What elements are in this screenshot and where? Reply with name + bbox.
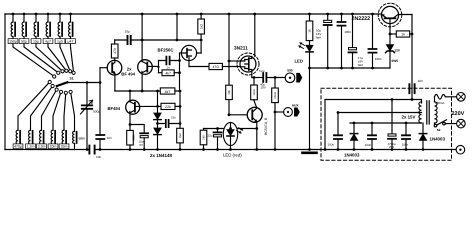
resistor R12 1k LED feed (309, 14, 311, 21)
wire drain to rail (254, 14, 256, 56)
capacitor C10 100n (341, 14, 343, 21)
svg-text:500: 500 (287, 68, 293, 72)
diode D1 1N4148 (157, 91, 159, 113)
capacitor C11 47u 16V tant (352, 14, 354, 48)
svg-text:1.2m: 1.2m (27, 145, 35, 149)
inductor L6 value μ47 (70, 14, 72, 22)
svg-text:10k: 10k (227, 90, 231, 95)
svg-text:100n: 100n (344, 30, 351, 34)
wire L9 to S1 contact (42, 90, 57, 131)
wire gate node vertical (179, 53, 181, 91)
svg-text:2k2: 2k2 (178, 133, 182, 138)
resistor R7 2k2 (177, 128, 184, 143)
svg-text:LED (red): LED (red) (223, 153, 242, 158)
wire collector rail down (411, 15, 413, 100)
wire L11 to S1 contact (64, 93, 66, 130)
jack J2 AUX (275, 111, 284, 113)
svg-text:100k: 100k (131, 134, 135, 141)
resistor R6 22k (161, 103, 175, 109)
resistor R13 1k (390, 33, 396, 35)
capacitor C18 1n gate coupling (158, 61, 160, 73)
svg-text:1k5: 1k5 (202, 135, 206, 140)
svg-text:150μ: 150μ (9, 40, 17, 44)
resistor R3 47ohm source follower (189, 66, 209, 68)
svg-text:3.3m: 3.3m (38, 145, 46, 149)
resistor R2 1k2 (198, 19, 205, 34)
svg-text:15μ: 15μ (33, 40, 39, 44)
variable capacitor C1 500p tuning (86, 83, 88, 150)
capacitor C14 100n (337, 113, 339, 135)
mains terminal X2 (457, 119, 466, 128)
wire L6 to S1 contact (71, 37, 74, 73)
inductor L8 value 1.2m (30, 148, 32, 150)
svg-text:1k2: 1k2 (199, 24, 203, 29)
svg-text:68m: 68m (79, 137, 86, 141)
svg-text:4k7: 4k7 (165, 71, 171, 75)
diode D2 1N4148 (157, 120, 159, 128)
diode D7 1N4003 (422, 123, 424, 134)
svg-text:3N211: 3N211 (234, 46, 248, 52)
wire to psu (325, 100, 422, 104)
capacitor C4 10u feedback (115, 39, 201, 41)
wire source down (251, 72, 253, 78)
wire secondary bottom (350, 122, 422, 124)
capacitor C5 10u 5V (130, 125, 144, 133)
svg-text:100mA: 100mA (435, 101, 445, 105)
svg-text:BF494: BF494 (108, 106, 121, 111)
wire bottom ground rail (5, 149, 456, 151)
capacitor C13 10n line isolation (409, 84, 414, 93)
wire L3 to S1 contact (36, 37, 63, 72)
capacitor C6 22n (158, 123, 181, 125)
svg-text:470μ: 470μ (14, 145, 22, 149)
svg-text:2x 1N4148: 2x 1N4148 (150, 153, 173, 158)
wire top supply rail (5, 13, 412, 16)
transistor T3 BF494 current source (126, 100, 140, 114)
resistor R9 10k (228, 14, 230, 85)
capacitor C9 10u 16V tant (327, 14, 329, 20)
svg-text:2x 15V: 2x 15V (402, 115, 416, 120)
wire L1 to S1 contact (13, 37, 54, 77)
resistor R5 4k7 (160, 88, 175, 94)
wire L5 to S1 contact (60, 37, 70, 72)
svg-text:4k7: 4k7 (165, 90, 171, 94)
svg-text:4μ7: 4μ7 (45, 40, 51, 44)
wire S1 wiper node down to C3 (99, 68, 101, 134)
svg-text:1μ5: 1μ5 (57, 40, 63, 44)
capacitor C12 100n (372, 14, 374, 48)
JFET U1 BF256C (181, 45, 196, 60)
resistor R11 560 (274, 78, 276, 89)
svg-text:10V: 10V (261, 86, 266, 90)
earth terminal X3 (456, 145, 465, 154)
svg-text:1n: 1n (166, 65, 170, 69)
svg-text:220V: 220V (452, 111, 465, 117)
capacitor C15 100n (371, 123, 373, 134)
wire rail drop x177 (176, 14, 178, 40)
wire source node y77.5 (252, 77, 262, 79)
resistor R10 1k5 (203, 129, 205, 131)
svg-text:1N4003: 1N4003 (344, 153, 360, 158)
switch S2 (434, 123, 436, 124)
transistor T1 BF494 (107, 60, 122, 75)
svg-text:100n: 100n (402, 143, 409, 147)
wire L8 to S1 contact (31, 86, 53, 130)
svg-text:10n: 10n (107, 136, 112, 140)
jack J1 phones 500 (285, 73, 295, 83)
coil value tags bottom bank (13, 144, 23, 149)
junction dots (12, 13, 15, 16)
wire zero volt line y68 (310, 67, 391, 69)
capacitor C2 10n series in ground rail (89, 146, 94, 154)
svg-text:1k: 1k (401, 33, 405, 37)
svg-text:5V: 5V (140, 143, 144, 147)
svg-text:Tant: Tant (357, 63, 363, 67)
wire L10 to S1 contact (53, 92, 61, 130)
inductor L5 value 1μ5 (59, 14, 61, 22)
svg-text:Tant: Tant (315, 36, 321, 40)
resistor R1 470 (111, 44, 118, 58)
mains terminal X1 (457, 93, 466, 102)
svg-text:470: 470 (113, 48, 117, 54)
wire G2 bias (229, 60, 240, 62)
svg-text:10n: 10n (418, 79, 423, 83)
capacitor C7 tant coupling (263, 73, 266, 82)
transistor T2 BF494 (138, 60, 153, 75)
svg-text:100Ω: 100Ω (253, 89, 256, 95)
resistor R14 4k7 gate leak (159, 72, 163, 74)
svg-text:50μ: 50μ (21, 40, 27, 44)
LED D4 indicator (309, 41, 311, 46)
svg-text:Tant.: Tant. (259, 69, 265, 73)
svg-text:22k: 22k (165, 105, 171, 109)
capacitor C16 4700u 25V (391, 100, 393, 134)
svg-text:33m: 33m (61, 145, 68, 149)
svg-text:100n: 100n (375, 57, 382, 61)
svg-text:10n: 10n (96, 155, 101, 159)
svg-text:10m: 10m (50, 145, 57, 149)
wire L7 to S1 contact (18, 82, 50, 130)
svg-text:47Ω: 47Ω (212, 65, 219, 69)
inductor L7 value 470μ (17, 148, 19, 150)
transistor T4 BC547 (247, 107, 262, 122)
rotary switch S1 contacts (53, 75, 56, 78)
zener D5 12V 0W5 (389, 24, 391, 45)
svg-text:0W5: 0W5 (392, 59, 399, 63)
svg-text:μ47: μ47 (68, 40, 74, 44)
transistor T5 2N2222 (378, 3, 402, 27)
wire secondary mid (338, 112, 422, 114)
inductor L1 value 150μ (12, 14, 14, 22)
wire S1 wiper to oscillator (67, 82, 100, 84)
transformer TR1 2x15V (419, 102, 422, 123)
svg-text:S1: S1 (70, 77, 74, 81)
svg-text:2N2222: 2N2222 (352, 16, 371, 22)
inductor L9 value 3.3m (41, 148, 43, 150)
fuse F1 100mA (434, 97, 436, 102)
inductor L4 value 4μ7 (47, 14, 49, 22)
svg-text:22μ: 22μ (208, 134, 213, 138)
coil value tags top bank (8, 39, 18, 44)
ground symbol (303, 152, 317, 155)
inductor L3 value 15μ (35, 14, 37, 22)
wire L4 to S1 contact (48, 37, 66, 71)
wire L2 to S1 contact (24, 37, 58, 73)
svg-text:10μ: 10μ (125, 30, 130, 34)
wire L12 to S1 contact (71, 92, 75, 131)
switch S1 wiper (57, 82, 68, 86)
svg-text:BF 494: BF 494 (121, 71, 135, 76)
resistor R8 100 (253, 78, 255, 86)
svg-text:1N4003: 1N4003 (430, 137, 446, 142)
svg-text:BC547A, B: BC547A, B (264, 117, 268, 135)
svg-text:BF256C: BF256C (158, 47, 174, 52)
wire rail drop x142 (141, 14, 143, 40)
svg-text:AUX: AUX (292, 103, 300, 107)
inductor L11 value 33m (63, 148, 65, 150)
wire LED to ground column (309, 52, 311, 150)
svg-text:LED: LED (295, 59, 303, 64)
svg-text:12V: 12V (394, 48, 401, 52)
wire left frame vertical (4, 14, 6, 150)
resistor R4 100k (127, 130, 134, 145)
svg-text:500p: 500p (93, 110, 100, 114)
svg-text:1k: 1k (308, 29, 312, 33)
svg-text:22n: 22n (171, 116, 176, 120)
svg-text:100n: 100n (328, 143, 335, 147)
inductor L10 value 10m (52, 148, 54, 150)
inductor L12 value 68m (74, 144, 76, 150)
diode D6 1N4003 (353, 123, 355, 134)
LED D3 red in housing (230, 123, 232, 129)
svg-text:100n: 100n (365, 143, 372, 147)
wire emitters common y91 (115, 90, 160, 92)
svg-text:560Ω: 560Ω (274, 92, 277, 98)
svg-text:S2: S2 (437, 128, 441, 132)
capacitor C3 10n (96, 135, 104, 139)
power supply dashed enclosure (321, 88, 452, 160)
inductor L2 value 50μ (23, 14, 25, 22)
MOSFET U2 3N211 dual gate (237, 53, 259, 75)
wire T4 emitter to rail and led (204, 129, 257, 150)
capacitor C8 22u (217, 129, 219, 132)
capacitor C17 100n (405, 123, 407, 134)
